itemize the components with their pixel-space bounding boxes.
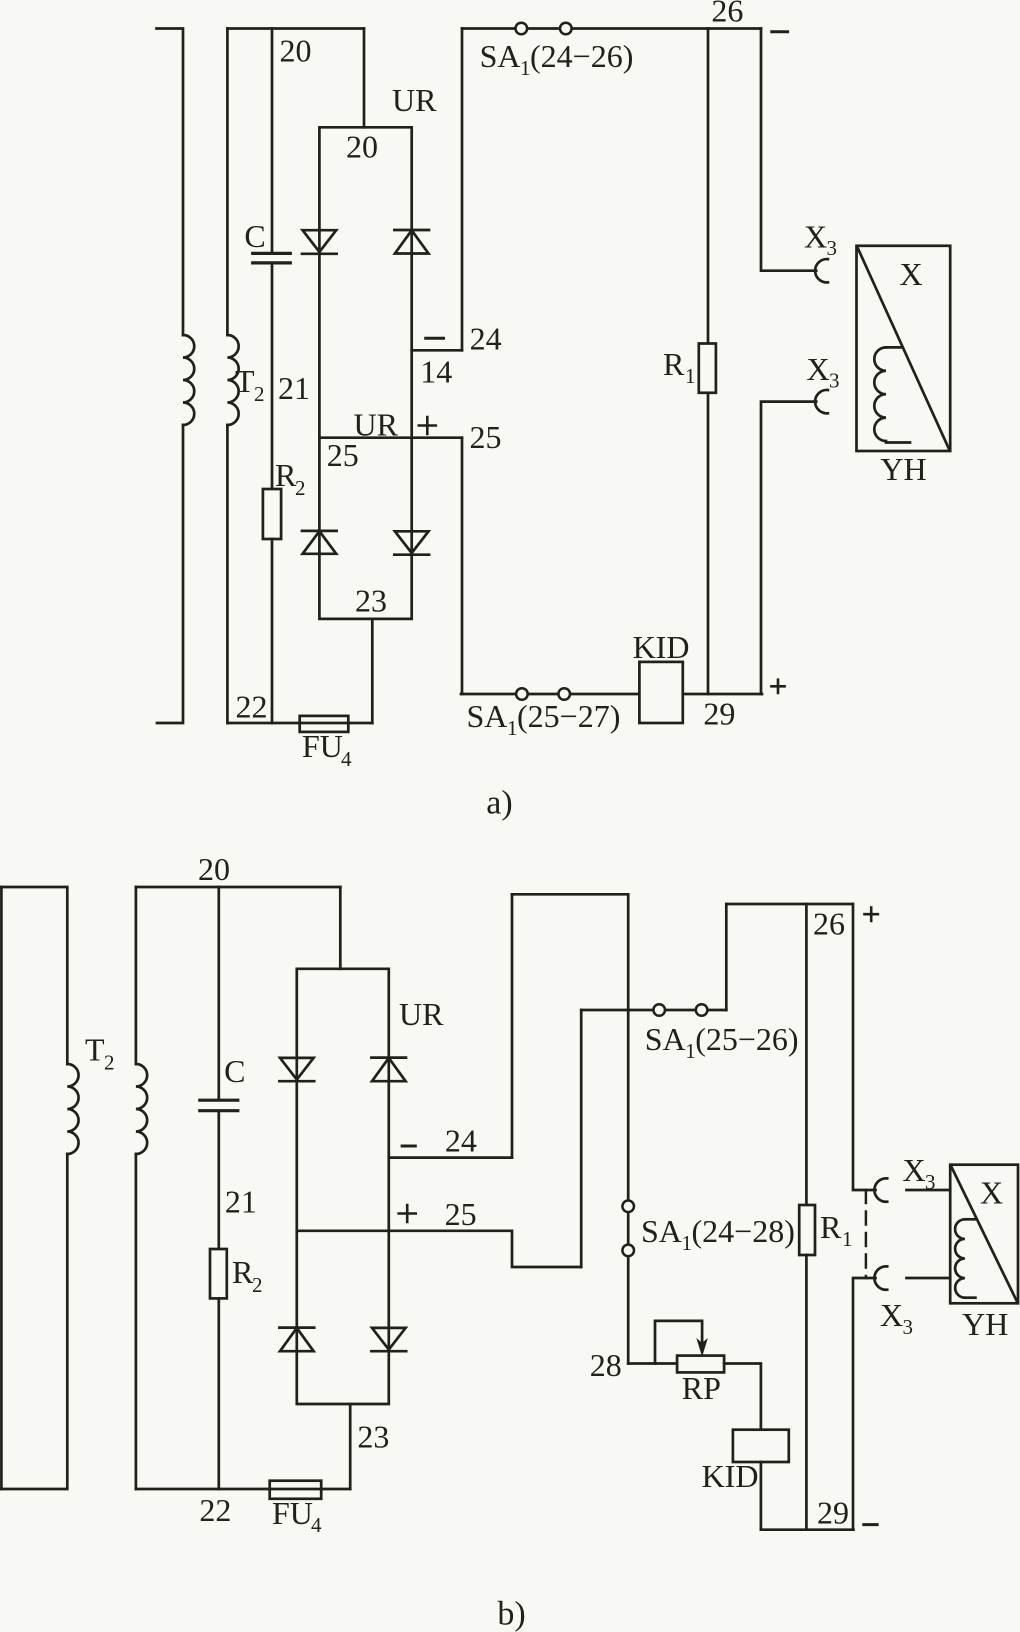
label X3 upper (fig a): [804, 219, 837, 261]
wire from node 20 down to capacitor C (fig a): [271, 29, 274, 253]
switch SA1(24-26) contact circles (fig a): [516, 23, 528, 35]
YH diagonal (fig b): [951, 1166, 1017, 1302]
diode D3 lower-left of bridge (fig a): [302, 531, 337, 554]
voltage transformer YH box (fig b): [950, 1165, 1018, 1304]
svg-text:X: X: [804, 219, 827, 255]
svg-text:22: 22: [199, 1492, 231, 1528]
wire UR bottom output node 23 to fuse rail (fig a): [371, 619, 374, 723]
node label 23 (fig a): [355, 583, 387, 619]
label R1 (fig b): [820, 1209, 853, 1251]
label KID (fig b): [702, 1458, 759, 1494]
svg-text:T: T: [235, 363, 255, 399]
svg-text:3: 3: [925, 1170, 936, 1194]
diode D1 upper-left of bridge (fig a): [302, 230, 337, 254]
svg-text:2: 2: [252, 1273, 263, 1297]
svg-text:2: 2: [104, 1051, 115, 1075]
node label 25 (fig b): [445, 1196, 477, 1232]
wire KID to node 29 rail (fig b): [760, 1462, 763, 1530]
voltage transformer YH box (fig a): [857, 246, 951, 451]
label SA1(24-26) (fig a): [480, 38, 634, 80]
wire node 29 bottom rail right segment (fig a): [683, 693, 762, 696]
svg-text:UR: UR: [392, 82, 437, 118]
rectifier bridge UR box (fig a): [319, 127, 411, 619]
plus sign at node 25 (fig b): [399, 1205, 416, 1222]
svg-text:25: 25: [470, 419, 502, 455]
wire node 25 plus output of UR (fig a): [319, 436, 462, 439]
diode D4 lower-right of bridge (fig b): [371, 1328, 406, 1351]
label KID (fig a): [633, 629, 690, 665]
svg-text:14: 14: [420, 354, 452, 390]
svg-text:SA: SA: [467, 698, 508, 734]
minus sign top right (fig a): [772, 30, 788, 33]
wire switch line SA1(25-26) (fig b): [581, 1009, 726, 1012]
node label 22 (fig b): [199, 1492, 231, 1528]
svg-text:R: R: [232, 1254, 254, 1290]
transformer T2 (fig a) secondary winding: [227, 29, 238, 724]
svg-text:4: 4: [341, 747, 352, 771]
svg-text:2: 2: [254, 382, 265, 406]
svg-text:1: 1: [507, 716, 518, 740]
label UR (fig a, above box): [392, 82, 437, 118]
svg-text:3: 3: [903, 1315, 914, 1339]
svg-text:20: 20: [198, 851, 230, 887]
wire node 20 top rail (fig b): [136, 886, 340, 889]
label T2 (fig a): [235, 363, 265, 406]
node label 26 (fig b): [813, 906, 845, 942]
svg-text:25: 25: [327, 437, 359, 473]
connector X3 upper socket arc (fig b): [874, 1178, 887, 1201]
wire node 20 top rail (fig a): [227, 27, 364, 30]
svg-text:(24−28): (24−28): [692, 1213, 795, 1249]
svg-text:(25−26): (25−26): [695, 1021, 798, 1057]
svg-text:YH: YH: [880, 451, 926, 487]
switch SA1(25-26) contact circles (fig b): [653, 1004, 665, 1016]
diode D2 upper-right of bridge (fig a): [394, 230, 429, 254]
minus sign at node 24 (fig a): [426, 337, 444, 340]
svg-text:1: 1: [685, 1039, 696, 1063]
node label 23 (fig b): [357, 1419, 389, 1455]
relay coil KID (fig b): [733, 1430, 789, 1462]
wire top jumper rail (fig b): [512, 893, 628, 896]
svg-text:(24−26): (24−26): [530, 38, 633, 74]
rectifier bridge UR box (fig b): [297, 969, 389, 1404]
fuse FU4 (fig b): [270, 1481, 322, 1499]
svg-text:R: R: [820, 1209, 842, 1245]
wire node 22 bottom rail (fig a): [227, 722, 372, 725]
wire node 20 to rectifier UR input (fig b): [339, 887, 342, 969]
node label 21 (fig a): [278, 370, 310, 406]
potentiometer RP wiper loop and arrow (fig b): [655, 1321, 707, 1364]
label T2 (fig b): [85, 1032, 115, 1075]
wire node 24 riser (fig b): [511, 894, 514, 1157]
resistor R2 (fig a): [263, 489, 281, 539]
wire node 22 bottom rail (fig b): [136, 1488, 350, 1491]
wire node 29 bottom rail left segment with switch (fig a): [461, 693, 639, 696]
svg-text:20: 20: [280, 33, 312, 69]
wire lower X3 to YH (fig b): [907, 1277, 951, 1280]
connector X3 lower socket arc (fig b): [874, 1266, 887, 1289]
svg-text:1: 1: [682, 1231, 693, 1255]
label R2 (fig a): [275, 457, 306, 500]
capacitor C (fig b): [200, 1100, 238, 1111]
YH winding coil (fig b): [955, 1219, 975, 1297]
label YH (fig a): [880, 451, 926, 487]
svg-text:C: C: [224, 1053, 245, 1089]
diode D2 upper-right of bridge (fig b): [371, 1058, 406, 1082]
svg-text:YH: YH: [962, 1306, 1008, 1342]
label RP (fig b): [682, 1370, 721, 1406]
svg-text:a): a): [486, 785, 512, 822]
svg-text:3: 3: [827, 236, 838, 260]
wire to lower connector X3 (fig a): [761, 402, 816, 694]
svg-text:X: X: [807, 351, 830, 387]
plus sign at node 26 (fig b): [865, 908, 878, 921]
svg-text:29: 29: [703, 696, 735, 732]
svg-text:26: 26: [711, 0, 743, 29]
label C (fig b): [224, 1053, 245, 1089]
label UR (fig b): [399, 996, 444, 1032]
wire R2 to bottom rail (fig b): [217, 1298, 220, 1489]
wire to upper connector X3 (fig b): [853, 904, 876, 1190]
plus sign bottom right (fig a): [771, 680, 784, 693]
svg-text:28: 28: [590, 1347, 622, 1383]
label FU4 (fig b): [272, 1495, 322, 1537]
svg-text:C: C: [244, 218, 265, 254]
svg-text:26: 26: [813, 906, 845, 942]
resistor R2 (fig b): [210, 1249, 227, 1298]
diode D3 lower-left of bridge (fig b): [279, 1328, 314, 1352]
svg-text:23: 23: [355, 583, 387, 619]
label FU4 (fig a): [302, 728, 352, 771]
svg-text:X: X: [980, 1175, 1003, 1211]
label X3 lower (fig a): [807, 351, 840, 393]
wire through R1 (fig a) upper lead: [707, 29, 710, 344]
resistor R1 (fig b): [799, 1205, 815, 1255]
label R2 (fig b): [232, 1254, 263, 1297]
capacitor C (fig a): [253, 253, 291, 263]
minus sign at node 29 (fig b): [864, 1523, 877, 1526]
svg-text:2: 2: [295, 476, 306, 500]
svg-text:23: 23: [357, 1419, 389, 1455]
svg-text:(25−27): (25−27): [517, 698, 620, 734]
svg-text:1: 1: [520, 56, 531, 80]
svg-text:FU: FU: [272, 1495, 313, 1531]
svg-text:X: X: [903, 1152, 926, 1188]
svg-text:22: 22: [236, 689, 268, 725]
label X inside YH (fig a): [899, 256, 922, 292]
svg-text:24: 24: [445, 1123, 477, 1159]
svg-text:21: 21: [225, 1184, 257, 1220]
label UR (fig a, at plus output): [354, 407, 399, 443]
dashed connector boundary (fig b): [865, 1190, 868, 1278]
node label 25 (fig a, right of corner): [470, 419, 502, 455]
fuse FU4 (fig a): [300, 716, 349, 732]
svg-text:R: R: [275, 457, 297, 493]
connector X3 upper socket arc (fig a): [815, 259, 828, 282]
wire node 25 drop to lower switch rail (fig a): [461, 438, 464, 694]
svg-text:X: X: [899, 256, 922, 292]
transformer T2 (fig b) secondary winding: [136, 887, 147, 1489]
node label 29 (fig a): [703, 696, 735, 732]
wire R2 to bottom rail (fig a): [271, 539, 274, 723]
resistor R1 (fig a): [699, 344, 716, 393]
svg-text:21: 21: [278, 370, 310, 406]
svg-text:1: 1: [842, 1227, 853, 1251]
svg-text:29: 29: [817, 1495, 849, 1531]
svg-text:4: 4: [311, 1513, 322, 1537]
wire node 28 to potentiometer RP (fig b): [628, 1362, 677, 1365]
svg-text:3: 3: [829, 369, 840, 393]
svg-text:KID: KID: [633, 629, 690, 665]
node label 28 (fig b): [590, 1347, 622, 1383]
svg-text:1: 1: [685, 364, 696, 388]
diode D1 upper-left of bridge (fig b): [279, 1058, 314, 1081]
svg-text:SA: SA: [641, 1213, 682, 1249]
label X3 upper (fig b): [903, 1152, 936, 1194]
svg-text:25: 25: [445, 1196, 477, 1232]
svg-text:X: X: [880, 1297, 903, 1333]
label YH (fig b): [962, 1306, 1008, 1342]
wire RP to relay KID (fig b): [724, 1364, 761, 1430]
wire node 20 to rectifier UR input (fig a): [363, 29, 366, 128]
wire top rail 24-26 with switch (fig a): [462, 27, 761, 30]
svg-text:SA: SA: [480, 38, 521, 74]
node label 20 (fig a, top): [280, 33, 312, 69]
node label 20 (fig b): [198, 851, 230, 887]
node label 25 (fig a, inside box): [327, 437, 359, 473]
wire node 29 bottom rail (fig b): [761, 1528, 854, 1531]
wire node 21 (fig a) capacitor to resistor R2: [271, 264, 274, 489]
wire from node 20 down to capacitor C (fig b): [217, 887, 220, 1099]
wire node 24 minus output of UR (fig a): [412, 349, 462, 352]
relay coil KID (fig a): [639, 662, 682, 723]
minus sign at node 24 (fig b): [402, 1145, 415, 1148]
label X inside YH (fig b): [980, 1175, 1003, 1211]
transformer T2 (fig b) primary winding: [0, 887, 79, 1489]
YH winding coil (fig a): [874, 347, 910, 442]
wire left edge vertical (fig b): [0, 887, 3, 1489]
label SA1(24-28) (fig b): [641, 1213, 795, 1255]
node label 29 (fig b): [817, 1495, 849, 1531]
node label 26 (fig a): [711, 0, 743, 29]
node label 24 (fig a): [470, 321, 502, 357]
connector X3 lower socket arc (fig a): [815, 390, 828, 413]
svg-text:R: R: [663, 346, 685, 382]
svg-text:SA: SA: [645, 1021, 686, 1057]
svg-text:T: T: [85, 1032, 105, 1068]
svg-text:UR: UR: [354, 407, 399, 443]
label C (fig a): [244, 218, 265, 254]
wire R1 lower lead to node 29 rail (fig a): [707, 393, 710, 694]
switch SA1(25-27) contact circles (fig a): [516, 688, 528, 700]
label X3 lower (fig b): [880, 1297, 913, 1339]
wire node 26 rail (fig b): [726, 903, 852, 906]
wire to lower connector X3 (fig b): [853, 1278, 876, 1530]
wire 25 riser to switch SA1(25-26) line (fig b): [580, 1010, 583, 1267]
svg-text:KID: KID: [702, 1458, 759, 1494]
wire to upper connector X3 (fig a): [761, 29, 816, 271]
caption b): [497, 1596, 525, 1632]
wire SA1(25-26) riser (fig b): [725, 904, 728, 1010]
YH diagonal (fig a): [858, 248, 950, 450]
wire switch column SA1(24-28) (fig b): [627, 894, 630, 1363]
wire node 24 riser to switch rail (fig a): [461, 29, 464, 351]
label R1 (fig a): [663, 346, 696, 388]
wire R1 lower lead to node 29 rail (fig b): [805, 1255, 808, 1530]
node label 22 (fig a): [236, 689, 268, 725]
svg-text:UR: UR: [399, 996, 444, 1032]
label SA1(25-26) (fig b): [645, 1021, 799, 1063]
svg-text:FU: FU: [302, 728, 343, 764]
svg-text:b): b): [497, 1596, 525, 1632]
potentiometer RP body (fig b): [677, 1356, 724, 1373]
svg-text:24: 24: [470, 321, 502, 357]
caption a): [486, 785, 512, 822]
transformer T2 (fig a) primary winding: [157, 29, 195, 724]
wire UR bottom output node 23 to fuse rail (fig b): [349, 1404, 352, 1489]
wire node 21 capacitor to R2 (fig b): [217, 1112, 220, 1249]
node label 20 (fig a, inside box): [346, 129, 378, 165]
node label 21 (fig b): [225, 1184, 257, 1220]
node label 24 (fig b): [445, 1123, 477, 1159]
switch SA1(24-28) contact circles (fig b): [622, 1201, 634, 1213]
wire R1 upper lead (fig b): [805, 904, 808, 1205]
diode D4 lower-right of bridge (fig a): [394, 531, 429, 554]
wire upper X3 to YH (fig b): [907, 1189, 951, 1192]
svg-text:RP: RP: [682, 1370, 721, 1406]
plus sign at node 25 (fig a): [419, 417, 436, 434]
wire node 25 plus output of UR (fig b): [297, 1231, 581, 1267]
label SA1(25-27) (fig a): [467, 698, 621, 740]
node label 14 (fig a): [420, 354, 452, 390]
svg-text:20: 20: [346, 129, 378, 165]
wire node 24 minus output of UR (fig b): [389, 1156, 512, 1159]
